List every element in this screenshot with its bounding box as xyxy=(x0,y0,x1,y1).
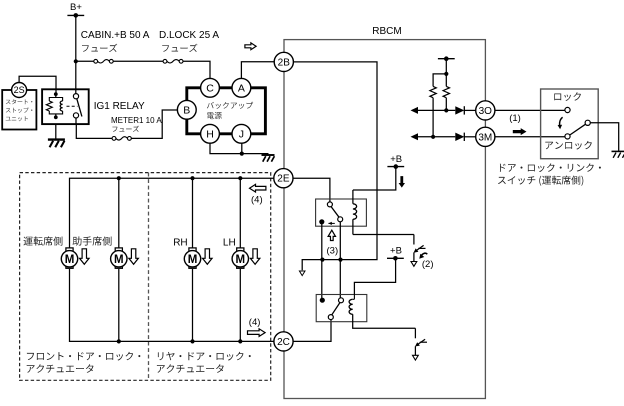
svg-text:J: J xyxy=(239,128,244,140)
wire relay1 coil to transistor 1 xyxy=(353,234,414,236)
transistor switch 1 xyxy=(413,235,415,245)
relay IG1 coil (resistor parallel coil) xyxy=(54,92,58,96)
port 3O xyxy=(476,101,495,120)
backup power unit box xyxy=(187,88,266,134)
port 2B xyxy=(274,52,293,71)
label front door lock actuator xyxy=(27,352,140,361)
switch contacts xyxy=(565,107,570,112)
motor M rear LH xyxy=(237,248,244,268)
wire A to 2B xyxy=(241,62,274,79)
arrow lock-direction (top) xyxy=(245,43,256,50)
pin H xyxy=(201,124,220,143)
svg-text:IG1 RELAY: IG1 RELAY xyxy=(94,101,145,112)
bold arrow lock direction xyxy=(513,128,527,135)
svg-text:RBCM: RBCM xyxy=(372,26,401,37)
motor branch x=240.3 xyxy=(239,178,241,341)
bottom bus (2C) xyxy=(70,269,274,341)
wires relay1 contacts down to relay2 xyxy=(322,222,341,299)
svg-text:B+: B+ xyxy=(70,2,82,13)
divider front/rear xyxy=(148,173,150,381)
svg-text:3M: 3M xyxy=(478,132,492,143)
switch blade xyxy=(570,124,586,135)
junction B+/fuse line xyxy=(74,59,78,63)
wire IG1 switch out through METER1 fuse to backup B xyxy=(76,110,177,138)
svg-text:M: M xyxy=(188,254,198,266)
ground switch xyxy=(612,150,624,152)
pull-up resistors xyxy=(438,58,455,60)
svg-text:(2): (2) xyxy=(422,259,434,270)
svg-text:M: M xyxy=(236,254,246,266)
top bus (2E) xyxy=(70,178,274,248)
resistor R left xyxy=(430,86,436,97)
lock arrow xyxy=(129,249,139,264)
relay 1 coil xyxy=(353,204,357,220)
relay 2 coil xyxy=(349,299,353,314)
port 2C xyxy=(274,332,293,351)
svg-text:M: M xyxy=(65,254,75,266)
relay 2 contacts and blade xyxy=(320,298,325,303)
wire H J to ground xyxy=(210,143,269,153)
door lock link switch box xyxy=(541,89,599,159)
svg-text:CABIN.+B 50 A: CABIN.+B 50 A xyxy=(81,30,150,41)
relay 1 contacts and blade xyxy=(327,202,332,207)
RBCM box xyxy=(284,40,485,399)
svg-text:+B: +B xyxy=(390,154,402,165)
svg-text:METER1 10 A: METER1 10 A xyxy=(111,116,162,125)
lock arrow xyxy=(203,249,213,264)
label driver side xyxy=(24,236,63,245)
start-stop unit box xyxy=(2,90,36,130)
svg-text:2E: 2E xyxy=(277,174,290,185)
arrow (4) unlock top xyxy=(250,184,266,192)
wire 2S to IG1 relay coil xyxy=(19,76,56,94)
wire 2C to relay2 contact xyxy=(293,319,331,341)
fuse D.LOCK 25A xyxy=(163,59,167,63)
svg-text:(3): (3) xyxy=(327,245,339,256)
port 3M xyxy=(476,127,495,146)
transistor switch 2 xyxy=(414,328,416,338)
svg-text:2B: 2B xyxy=(278,57,291,68)
svg-text:RH: RH xyxy=(173,238,187,249)
svg-text:(1): (1) xyxy=(509,113,521,124)
svg-text:B: B xyxy=(183,104,190,116)
motor M passenger side xyxy=(115,248,122,268)
svg-text:C: C xyxy=(206,82,214,94)
wire 3M to switch xyxy=(495,136,565,138)
motor branch x=118.8 xyxy=(118,178,120,341)
svg-text:3O: 3O xyxy=(479,106,493,117)
relay 1 (lock) box xyxy=(316,199,367,226)
svg-text:+B: +B xyxy=(390,245,402,256)
motor branch x=192.5 xyxy=(192,178,194,341)
pin C xyxy=(201,78,220,97)
wire 2B feed bus xyxy=(294,62,378,270)
port 2E xyxy=(274,169,293,188)
wire 2E to relay1 contact xyxy=(293,178,330,202)
relay IG1 box xyxy=(42,89,89,124)
ground IG1 coil xyxy=(55,124,57,140)
annotation (2) curved arrow xyxy=(422,253,428,255)
wire switch common to ground xyxy=(590,123,618,151)
wire fuse line to backup power C xyxy=(76,61,210,78)
wire 3O to switch xyxy=(495,109,565,111)
relay IG1 switch xyxy=(73,94,78,99)
relay 2 (unlock) box xyxy=(316,295,367,322)
relay IG1 linkage dashes xyxy=(67,105,78,107)
svg-text:(4): (4) xyxy=(249,317,261,328)
svg-text:D.LOCK 25 A: D.LOCK 25 A xyxy=(159,30,219,41)
3O signal line xyxy=(411,107,419,114)
svg-text:LH: LH xyxy=(223,238,236,249)
resistor R right xyxy=(443,86,449,97)
label door lock link switch xyxy=(500,163,601,172)
front/rear door lock actuator dashed box xyxy=(20,173,271,381)
motor M driver side xyxy=(66,248,73,268)
fuse METER1 10A xyxy=(112,137,116,141)
lock arrow xyxy=(250,249,260,264)
switch motion arrow xyxy=(560,117,563,125)
svg-text:A: A xyxy=(238,82,245,94)
arrow (3) unlock xyxy=(328,230,335,240)
wire B+ down to IG1 relay xyxy=(75,15,77,96)
svg-text:2C: 2C xyxy=(277,337,290,348)
svg-text:H: H xyxy=(206,128,214,140)
ground backup power xyxy=(262,154,275,156)
open arrow continuation down-left xyxy=(299,271,305,276)
3M signal line xyxy=(411,133,419,140)
pin A xyxy=(232,78,251,97)
motor M rear RH xyxy=(189,248,196,268)
current arrow down xyxy=(399,176,405,188)
pin B xyxy=(177,100,196,119)
svg-text:(4): (4) xyxy=(251,195,263,206)
label rear door lock actuator xyxy=(158,352,251,361)
label passenger side xyxy=(73,236,112,245)
pin J xyxy=(232,124,251,143)
svg-text:M: M xyxy=(114,254,124,266)
connector 2S xyxy=(12,83,27,98)
lock arrow xyxy=(80,249,90,264)
fuse CABIN.+B 50A xyxy=(94,59,98,63)
svg-text:2S: 2S xyxy=(14,85,25,95)
